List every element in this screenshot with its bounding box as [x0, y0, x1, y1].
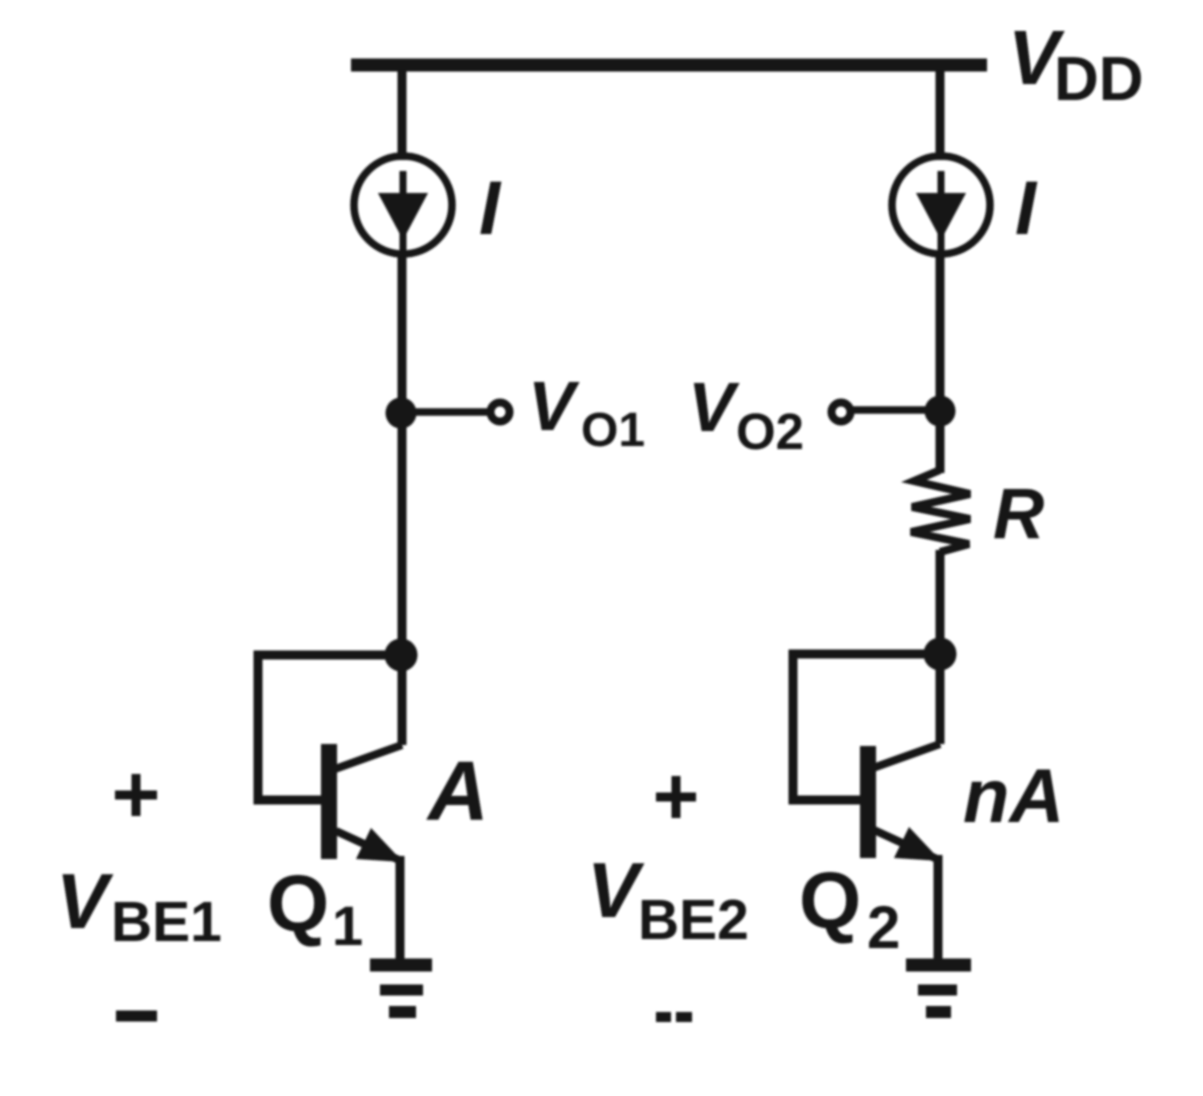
svg-text:BE2: BE2 [638, 888, 749, 952]
wire: Q2 emitter to ground [934, 855, 943, 959]
svg-text:O2: O2 [736, 403, 804, 460]
node A (Q1 collector-base junction dot) [385, 639, 418, 672]
VDD rail [351, 59, 987, 72]
wire: node VO1 down to Q1 collector node [398, 421, 407, 648]
wire: Q2 base-collector feedback loop [793, 654, 940, 800]
node VO1 junction dot [386, 398, 417, 429]
svg-text:I: I [1015, 166, 1038, 251]
svg-text:O1: O1 [581, 404, 645, 457]
svg-text:Q: Q [799, 856, 861, 945]
transistor Q2 collector lead [873, 744, 940, 768]
svg-text:BE1: BE1 [111, 890, 222, 954]
wire: node VO2 to resistor R [936, 419, 945, 473]
wire: current source 1 to node VO1 [398, 252, 407, 405]
transistor Q1 emitter lead [336, 831, 399, 860]
minus sign (VBE2) [656, 1012, 671, 1022]
wire: current source 2 to node VO2 [936, 252, 945, 403]
transistor Q2 base bar [860, 746, 876, 858]
node nA (Q2 collector-base junction dot) [924, 638, 957, 671]
svg-text:nA: nA [963, 754, 1064, 839]
terminal VO1 [491, 403, 510, 422]
svg-text:A: A [426, 744, 489, 838]
wire: Q1 base-collector feedback loop [258, 655, 401, 800]
wire: node to Q1 collector [398, 663, 407, 745]
current source I (right) [892, 156, 990, 254]
plus sign (VBE1) [115, 791, 157, 800]
svg-text:1: 1 [332, 894, 363, 957]
svg-text:V: V [688, 368, 740, 446]
transistor Q1 emitter arrowhead [356, 828, 403, 862]
transistor Q2 emitter arrowhead [894, 827, 941, 861]
terminal VO2 [832, 403, 851, 422]
resistor R [911, 470, 970, 552]
wire: resistor R to Q2 collector node [936, 550, 945, 646]
svg-text:V: V [587, 846, 645, 934]
wire: Q1 emitter to ground [396, 856, 405, 959]
transistor Q1 base bar [321, 744, 337, 859]
node VO2 junction dot [925, 396, 956, 427]
wire: node to Q2 collector [936, 662, 945, 744]
svg-text:V: V [56, 857, 114, 945]
plus sign (VBE2) [656, 793, 696, 802]
svg-text:Q: Q [267, 859, 329, 948]
wire: rail to current source 1 [398, 66, 407, 160]
svg-text:2: 2 [867, 894, 900, 961]
transistor Q1 collector lead [335, 745, 402, 769]
ground (Q2) [906, 959, 971, 972]
wire: stub to VO2 terminal [853, 406, 933, 414]
minus sign (VBE1) [116, 1011, 157, 1022]
wire: stub to VO1 terminal [409, 408, 489, 416]
svg-text:I: I [479, 166, 502, 251]
wire: rail to current source 2 [936, 66, 945, 160]
svg-text:V: V [528, 367, 580, 445]
current source I (left) [354, 156, 452, 254]
ground (Q1) [370, 959, 432, 972]
transistor Q2 emitter lead [874, 830, 937, 859]
svg-text:R: R [993, 475, 1044, 554]
svg-text:DD: DD [1054, 45, 1144, 114]
